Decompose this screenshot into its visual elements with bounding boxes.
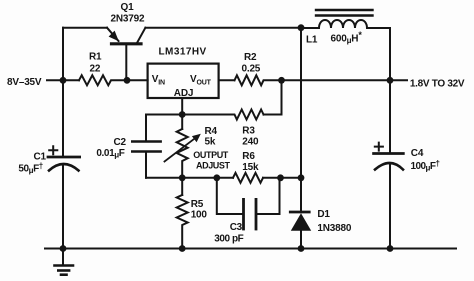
svg-text:VIN: VIN [152,74,165,87]
svg-text:R4: R4 [205,126,218,137]
svg-text:240: 240 [242,136,259,147]
svg-text:ADJ: ADJ [174,88,193,99]
svg-text:1.8V TO 32V: 1.8V TO 32V [410,78,465,89]
svg-text:22: 22 [90,64,101,75]
svg-text:1N3880: 1N3880 [317,223,351,234]
svg-text:R2: R2 [244,52,257,63]
svg-text:R3: R3 [242,126,255,137]
svg-text:OUTPUT: OUTPUT [193,150,229,160]
svg-text:R6: R6 [242,151,255,162]
svg-text:L1: L1 [306,35,318,46]
svg-text:50μF†: 50μF† [18,162,42,176]
svg-text:300 pF: 300 pF [214,234,243,245]
svg-text:600μH*: 600μH* [331,30,363,45]
svg-text:D1: D1 [317,209,330,220]
svg-text:ADJUST: ADJUST [196,160,231,170]
svg-text:C4: C4 [411,148,424,159]
svg-text:Q1: Q1 [121,2,135,13]
svg-text:8V–35V: 8V–35V [7,77,42,88]
svg-text:0.25: 0.25 [242,64,261,75]
svg-text:100μF†: 100μF† [411,159,440,173]
svg-text:15k: 15k [242,162,259,173]
svg-text:C2: C2 [114,137,127,148]
svg-text:R1: R1 [89,52,102,63]
svg-text:100: 100 [191,209,208,220]
svg-text:LM317HV: LM317HV [159,47,207,58]
svg-text:0.01μF: 0.01μF [96,148,124,160]
svg-text:C3: C3 [230,222,243,233]
svg-text:2N3792: 2N3792 [111,14,145,25]
svg-text:VOUT: VOUT [190,74,212,87]
svg-text:5k: 5k [205,137,216,148]
